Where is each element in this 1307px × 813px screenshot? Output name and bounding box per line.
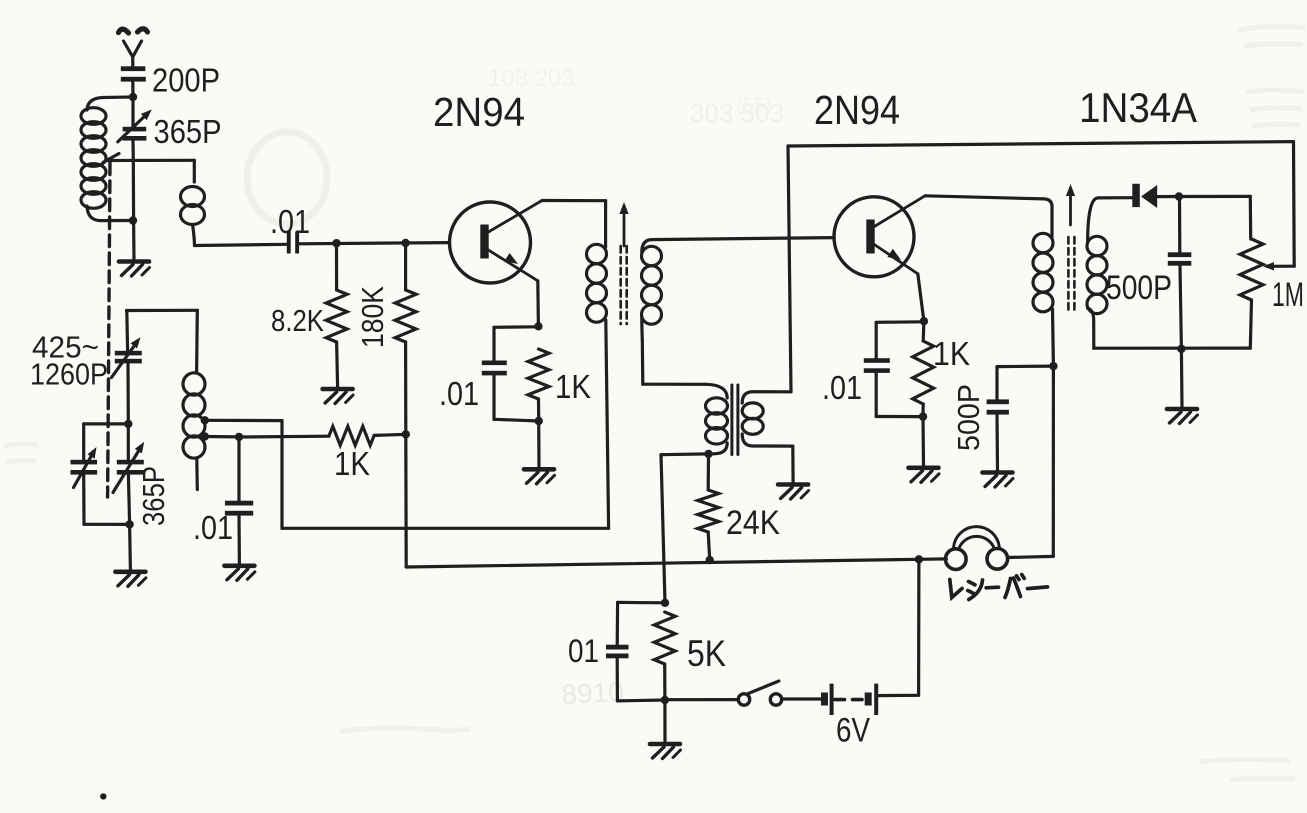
svg-text:1K: 1K	[555, 368, 591, 405]
wire (T3 bottom to phones)	[1052, 366, 1055, 556]
junction	[401, 239, 409, 247]
junction	[704, 450, 712, 458]
wire (tap to L2)	[107, 159, 194, 162]
svg-text:.01: .01	[193, 509, 233, 546]
junction	[124, 420, 132, 428]
wire (emitter)	[918, 274, 924, 321]
battery 6V	[874, 684, 878, 715]
tap arrow on L1	[103, 154, 119, 163]
junction	[402, 430, 410, 438]
svg-text:1K: 1K	[334, 445, 370, 482]
svg-text:200P: 200P	[152, 63, 220, 100]
wiper arrow into 1M	[1268, 265, 1295, 268]
svg-text:8.2K: 8.2K	[271, 303, 324, 338]
transformer T2 primary	[643, 383, 706, 386]
wire	[1008, 556, 1054, 557]
svg-text:500P: 500P	[951, 384, 986, 451]
IF transformer T3 primary	[1050, 207, 1053, 238]
svg-text:2N94: 2N94	[814, 87, 900, 133]
wire	[641, 340, 645, 384]
junction	[332, 239, 340, 247]
wire	[782, 697, 821, 700]
label receiver (katakana)	[950, 575, 1048, 600]
phase arrow	[1069, 190, 1072, 225]
resistor 8.2K	[335, 243, 338, 290]
resistor 1K (base return)	[239, 435, 329, 439]
ground	[1167, 409, 1198, 424]
svg-text:01: 01	[568, 633, 599, 669]
wire (emitter)	[536, 281, 540, 327]
antenna	[119, 29, 148, 67]
IF transformer T1 secondary	[642, 246, 662, 265]
junction	[235, 433, 243, 441]
capacitor .01 (osc bypass)	[237, 437, 240, 501]
wire	[195, 244, 287, 245]
wire	[665, 698, 738, 701]
capacitor .01 (Q2 emitter bypass)	[876, 320, 924, 324]
T2 core	[730, 385, 733, 455]
wire	[663, 700, 666, 742]
variable capacitor 425~1260P (padder)	[125, 311, 129, 351]
svg-text:.01: .01	[822, 369, 862, 406]
wire	[661, 452, 709, 456]
ground	[323, 389, 354, 404]
svg-text:1260P: 1260P	[30, 357, 108, 392]
wire	[404, 434, 408, 567]
capacitor 200P	[121, 66, 146, 71]
wire	[205, 435, 239, 439]
resistor 1K (Q1 emitter)	[528, 349, 549, 399]
T3 core	[1067, 237, 1070, 313]
wire (base line Q1)	[299, 243, 450, 244]
ground	[650, 744, 681, 759]
svg-text:24K: 24K	[726, 504, 780, 542]
potentiometer 1M	[1240, 239, 1263, 300]
svg-text:(55): (55)	[736, 95, 772, 117]
transistor Q2 2N94	[834, 197, 914, 277]
junction	[1175, 192, 1183, 200]
junction	[661, 599, 669, 607]
svg-text:103 203: 103 203	[488, 65, 575, 92]
junction	[661, 696, 669, 704]
svg-text:1N34A: 1N34A	[1079, 84, 1197, 131]
oscillator coil L3	[127, 309, 198, 312]
ground	[778, 485, 809, 500]
wire (collector feed riser)	[788, 146, 791, 392]
svg-text:.01: .01	[439, 375, 479, 412]
variable capacitor 365P (osc tuning, left section)	[84, 422, 129, 425]
wire	[661, 455, 665, 603]
wire	[1180, 349, 1184, 407]
junction	[706, 556, 714, 564]
junction	[920, 317, 928, 325]
T1 core	[619, 246, 622, 324]
wire	[1179, 195, 1250, 198]
svg-text:365P: 365P	[136, 466, 171, 526]
wire (to Q2 base)	[652, 238, 835, 240]
capacitor .01 (AF bypass)	[618, 601, 665, 605]
wire (to AVC line)	[606, 320, 609, 528]
ground	[119, 262, 150, 277]
capacitor .01 (Q1 emitter bypass)	[494, 325, 538, 329]
wire (negative supply rail)	[406, 559, 919, 567]
ground	[115, 572, 146, 587]
switch	[738, 694, 749, 705]
wire (top supply line)	[788, 142, 1294, 146]
transformer T2 secondary	[742, 392, 791, 403]
faint scan smudges	[247, 132, 327, 224]
svg-text:8910: 8910	[561, 676, 625, 710]
wire	[128, 524, 132, 569]
stray ink dot	[100, 793, 106, 799]
variable capacitor 365P (osc tuning, right section)	[127, 424, 130, 460]
junction (tap)	[201, 416, 209, 424]
wire	[1157, 195, 1179, 198]
resistor 24K	[707, 454, 710, 490]
capacitor 500P (IF bypass)	[997, 365, 1053, 369]
earphone (receiver)	[919, 557, 946, 561]
antenna coil L1	[87, 97, 133, 110]
svg-text:180K: 180K	[355, 286, 390, 348]
junction	[534, 322, 542, 330]
ground	[524, 469, 555, 484]
IF transformer T1 primary	[604, 201, 607, 247]
capacitor 500P (detector load)	[1178, 197, 1182, 253]
junction	[915, 555, 923, 563]
wire (AVC/feedback path)	[280, 421, 283, 529]
junction	[919, 412, 927, 420]
junction	[535, 417, 543, 425]
wire (collector)	[542, 199, 606, 202]
svg-text:5K: 5K	[687, 633, 726, 674]
ground	[224, 566, 255, 581]
variable capacitor 365P (antenna tuning)	[131, 97, 134, 127]
gang dashed link	[108, 163, 110, 497]
junction	[125, 520, 133, 528]
battery 6V branch	[917, 559, 921, 695]
wire (feedback tap)	[205, 419, 282, 423]
svg-text:365P: 365P	[154, 113, 222, 150]
ground	[983, 473, 1014, 488]
svg-text:500P: 500P	[1106, 269, 1172, 307]
wire	[84, 523, 130, 526]
resistor 180K	[404, 243, 407, 290]
junction	[1049, 362, 1057, 370]
junction (tap)	[201, 432, 209, 440]
wire	[537, 421, 540, 467]
ground	[909, 468, 940, 483]
wire (detector bottom rail)	[1094, 347, 1251, 350]
coupling coil L2	[193, 160, 196, 182]
resistor 1K (Q2 emitter)	[922, 321, 926, 341]
capacitor .01 (series coupling)	[287, 232, 291, 254]
wire	[132, 160, 136, 220]
phase arrow	[623, 208, 626, 246]
wire	[921, 417, 925, 466]
diode 1N34A	[1132, 184, 1140, 207]
junction	[1177, 345, 1185, 353]
svg-text:1K: 1K	[933, 335, 970, 372]
svg-text:1M: 1M	[1272, 276, 1304, 314]
svg-text:2N94: 2N94	[433, 89, 525, 135]
wire (collector to T3)	[925, 196, 1052, 207]
wire	[131, 82, 134, 97]
junction	[129, 93, 137, 101]
junction	[129, 216, 137, 224]
svg-text:.01: .01	[270, 203, 310, 240]
resistor 5K	[654, 612, 675, 664]
svg-text:6V: 6V	[836, 712, 870, 750]
IF transformer T3 secondary	[1087, 236, 1107, 255]
transistor Q1 2N94	[450, 202, 531, 283]
